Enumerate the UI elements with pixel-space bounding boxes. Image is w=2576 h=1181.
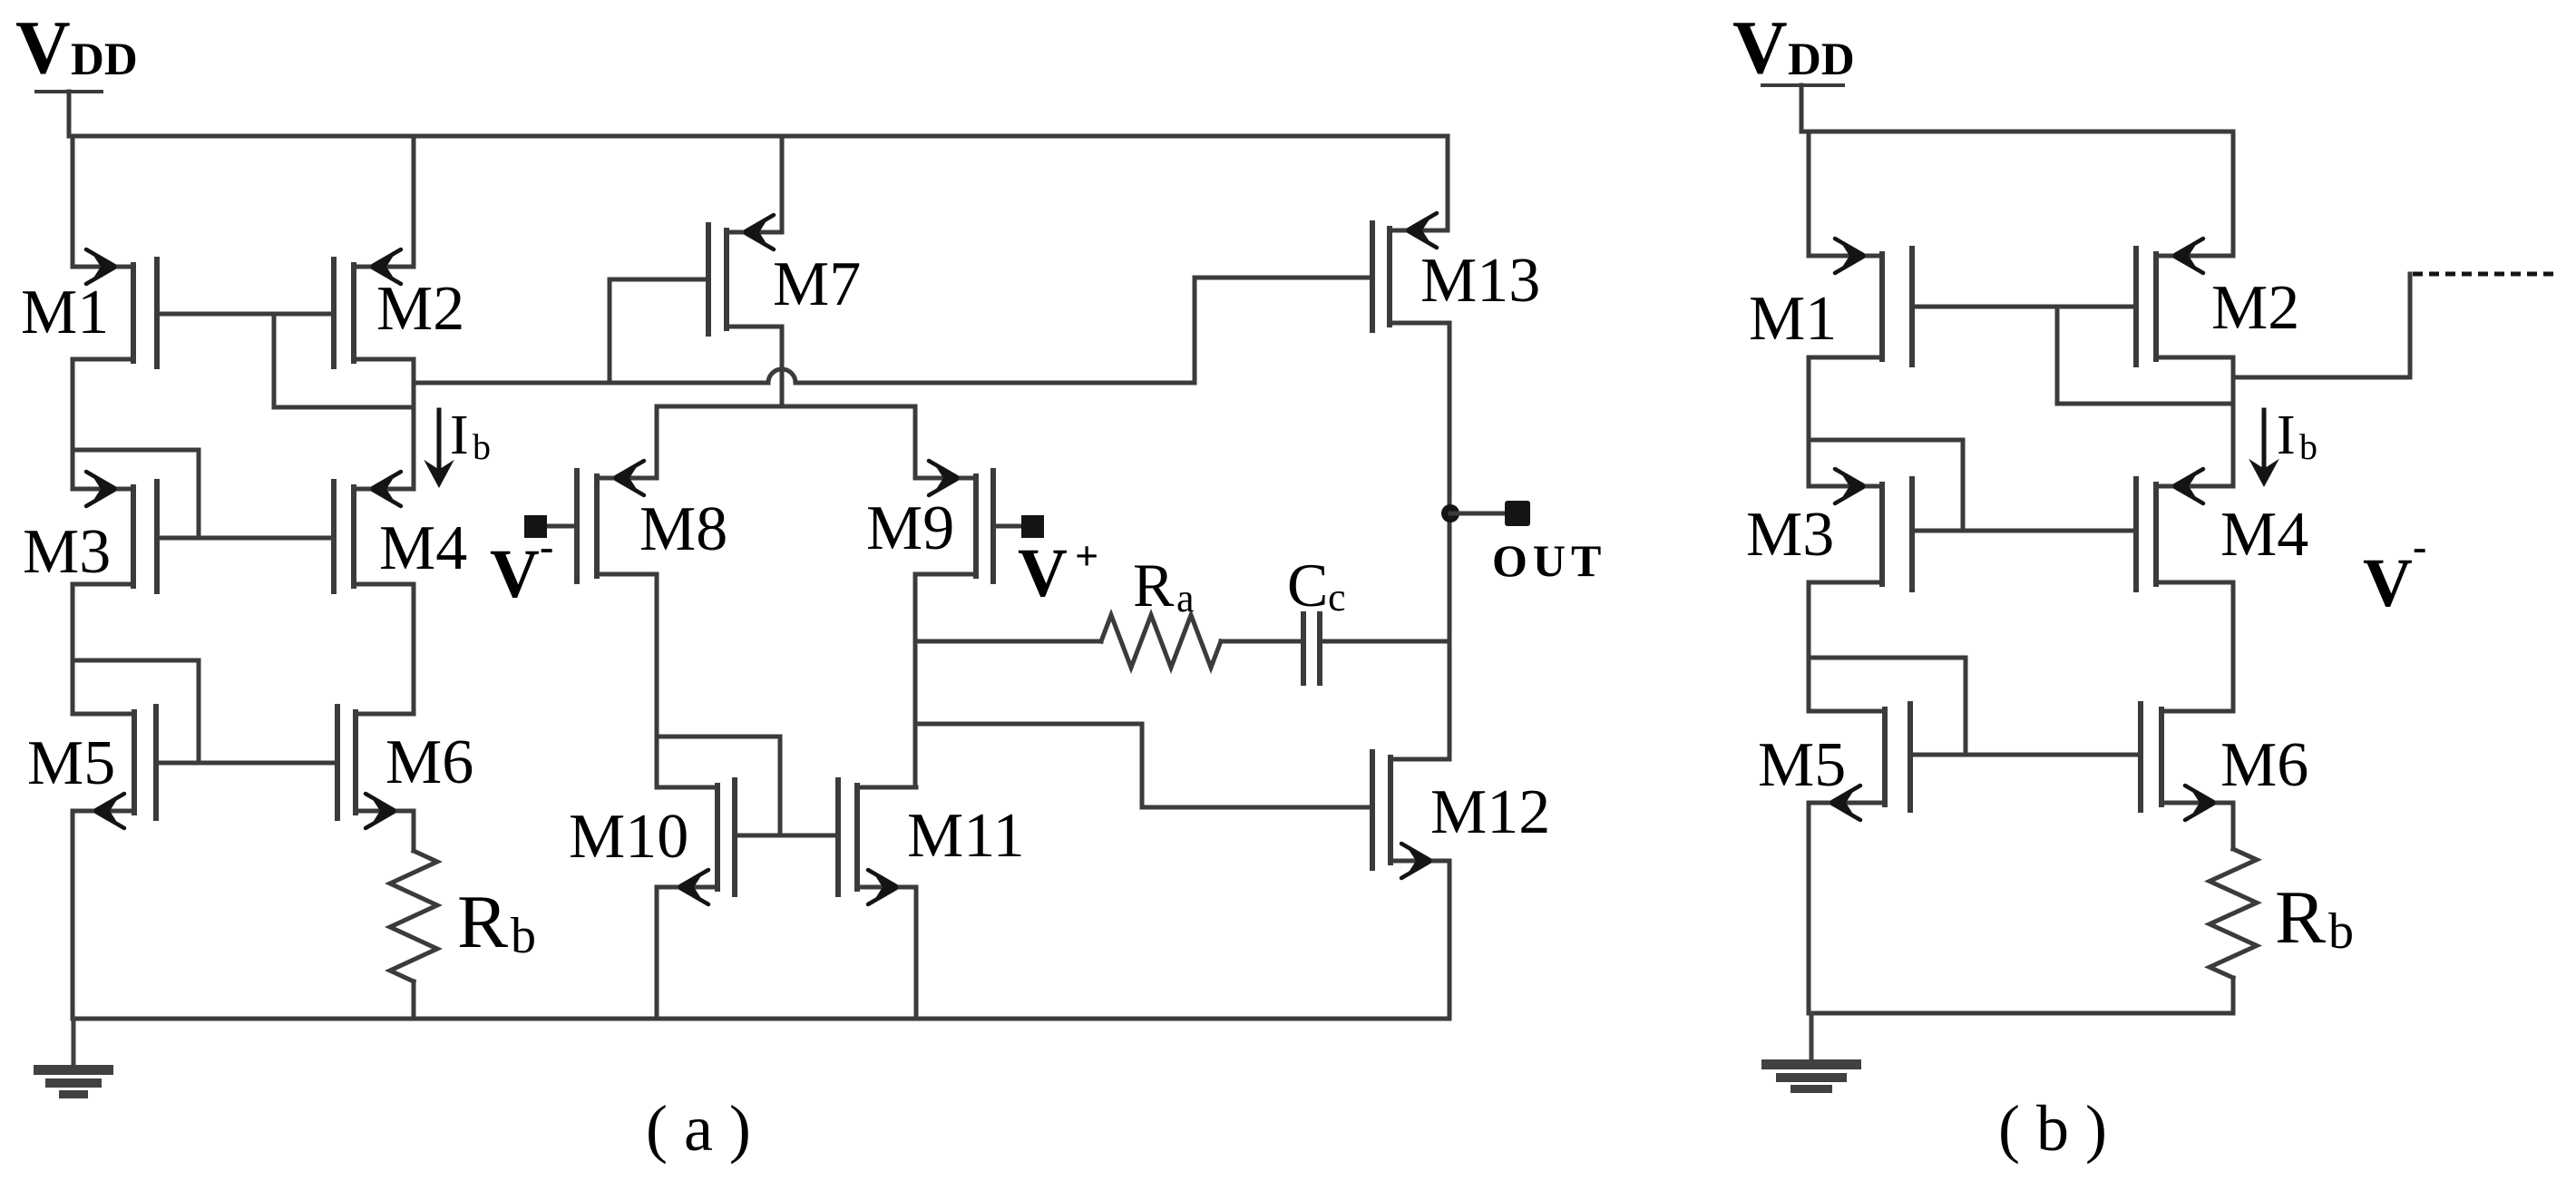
transistor M2 (b) — [2136, 239, 2299, 365]
current arrow Ib (a) — [424, 405, 491, 488]
wire M3-M4 gate net (b) — [1912, 529, 2136, 533]
transistor M5 — [27, 707, 156, 828]
wire M7 drain to tail net — [780, 327, 785, 406]
wire rail to M1 source (b) — [1807, 132, 1811, 256]
capacitor Cc — [1287, 551, 1346, 683]
svg-text:-: - — [540, 523, 553, 570]
svg-text:M5: M5 — [27, 728, 115, 798]
wire M1-M2 gate net — [157, 312, 334, 317]
transistor M13 — [1372, 213, 1540, 330]
svg-text:C: C — [1287, 551, 1328, 620]
output node OUT — [1441, 501, 1606, 586]
svg-text:M8: M8 — [639, 494, 727, 564]
svg-text:M4: M4 — [2220, 500, 2308, 570]
wire M1 drain to M3 source (b) — [1807, 357, 1811, 486]
transistor M8 — [577, 461, 727, 581]
wire M3 drain to M5 drain — [71, 584, 75, 714]
svg-text:M9: M9 — [866, 493, 954, 563]
transistor M7 — [708, 215, 861, 334]
wire Ra to Cc — [1221, 639, 1303, 644]
svg-text:M6: M6 — [385, 727, 473, 797]
wire diff-pair tail net — [657, 405, 915, 409]
svg-text:I: I — [2277, 405, 2296, 466]
current arrow Ib (b) — [2249, 405, 2317, 487]
svg-text:I: I — [450, 405, 469, 466]
transistor M6 (b) — [2141, 704, 2308, 820]
svg-text:M1: M1 — [21, 278, 109, 347]
svg-text:M3: M3 — [23, 517, 111, 587]
transistor M12 — [1372, 752, 1550, 878]
dashed wire (b) — [2413, 272, 2560, 277]
svg-text:b: b — [473, 426, 491, 467]
wire rail to M2 source — [412, 136, 416, 267]
wire ground rail (b) — [1809, 1011, 2233, 1016]
wire M3-M4 gate net — [157, 536, 334, 541]
resistor Ra — [1101, 551, 1221, 668]
wire rail to M7 source — [780, 136, 785, 232]
ground symbol (b) — [1761, 1013, 1861, 1093]
wire M3 gate tie jog (b) — [1809, 440, 1963, 531]
svg-text:DD: DD — [1788, 34, 1855, 85]
wire rail to M13 source — [1446, 136, 1450, 230]
wire M2 gate-drain tie — [274, 314, 412, 407]
svg-text:b: b — [2299, 426, 2317, 467]
wire M1-M2 gate net (b) — [1912, 305, 2136, 309]
svg-text:R: R — [457, 880, 508, 964]
svg-text:R: R — [1133, 551, 1175, 620]
wire M4 drain to M6 drain — [412, 584, 416, 714]
power symbol VDD (circuit a) — [15, 5, 138, 136]
transistor M4 — [334, 472, 467, 591]
transistor M2 — [334, 249, 464, 366]
resistor Rb (a) — [390, 811, 536, 1019]
power symbol VDD (circuit b) — [1732, 5, 1855, 132]
wire M2 drain to M4 source (b) — [2231, 357, 2236, 486]
wire M5 source to ground rail (b) — [1807, 803, 1811, 1013]
wire M13 drain to output column — [1448, 323, 1452, 759]
svg-text:M7: M7 — [773, 249, 861, 319]
wire M8 drain to M10 drain — [655, 574, 659, 787]
wire Cc to output net — [1320, 639, 1449, 644]
wire tail to M8 — [655, 406, 659, 478]
wire M10-M11 gate net — [735, 834, 838, 838]
svg-text:b: b — [511, 908, 536, 964]
wire M10 source to ground rail — [655, 887, 659, 1019]
transistor M3 (b) — [1746, 469, 1912, 590]
transistor M1 — [21, 249, 157, 366]
svg-text:OUT: OUT — [1492, 535, 1606, 586]
wire M3 gate tie jog — [73, 450, 199, 538]
wire M5 gate tie jog — [73, 660, 199, 763]
wire M2 gate-drain tie (b) — [2057, 307, 2231, 404]
input label V- (b) — [2363, 523, 2426, 621]
svg-text:c: c — [1328, 575, 1346, 620]
transistor M1 (b) — [1749, 239, 1912, 365]
wire M5 source to ground rail — [71, 811, 75, 1019]
subfigure label ( b ) — [1998, 1092, 2107, 1165]
svg-text:( b ): ( b ) — [1998, 1092, 2107, 1165]
svg-text:V: V — [15, 5, 71, 90]
svg-text:V: V — [1018, 535, 1068, 611]
resistor Rb (b) — [2210, 803, 2354, 1013]
svg-text:M5: M5 — [1758, 730, 1846, 800]
transistor M9 — [866, 461, 993, 581]
wire rail to M1 source — [71, 136, 75, 267]
wire M5-M6 gate net — [156, 761, 337, 766]
wire M1 drain to M3 source — [71, 359, 75, 489]
svg-text:V: V — [490, 536, 540, 612]
wire M10 gate tie jog — [657, 737, 780, 835]
svg-text:DD: DD — [71, 34, 138, 85]
transistor M10 — [569, 780, 735, 904]
svg-text:M13: M13 — [1420, 246, 1540, 316]
svg-text:M2: M2 — [2211, 273, 2299, 343]
wire M12 source to ground rail — [1448, 861, 1452, 1019]
ground symbol (a) — [34, 1019, 113, 1098]
svg-text:a: a — [1176, 576, 1195, 620]
svg-text:V: V — [2363, 545, 2413, 621]
wire M12 gate net — [915, 724, 1372, 807]
wire VDD top rail (a) — [69, 134, 1448, 139]
subfigure label ( a ) — [646, 1092, 751, 1165]
wire M2 drain to M4 source — [412, 359, 416, 489]
svg-text:M3: M3 — [1746, 500, 1834, 570]
wire VDD top rail (b) — [1801, 130, 2233, 134]
wire rail to M2 source (b) — [2231, 132, 2236, 256]
svg-text:V: V — [1732, 5, 1788, 90]
transistor M6 — [337, 707, 473, 828]
transistor M5 (b) — [1758, 704, 1910, 820]
svg-text:M2: M2 — [376, 274, 464, 344]
svg-text:-: - — [2413, 523, 2426, 570]
wire M3 drain to M5 drain (b) — [1807, 582, 1811, 711]
wire compensation tap — [915, 639, 1101, 644]
wire tail to M9 — [913, 406, 918, 478]
wire to dashed continuation (b) — [2233, 274, 2410, 377]
input node V- (a) — [490, 515, 577, 612]
svg-text:M6: M6 — [2220, 730, 2308, 800]
transistor M11 — [838, 780, 1025, 904]
svg-text:M10: M10 — [569, 802, 688, 872]
wire M5-M6 gate net (b) — [1910, 753, 2141, 757]
wire M4 drain to M6 drain (b) — [2231, 582, 2236, 711]
svg-text:M1: M1 — [1749, 284, 1837, 354]
transistor M3 — [23, 472, 157, 591]
wire M5 gate tie jog (b) — [1809, 658, 1966, 755]
svg-text:R: R — [2275, 875, 2326, 960]
wire bias net M2 drain to M7/M13 gates (with crossover hop) — [414, 278, 1372, 383]
transistor M4 (b) — [2136, 469, 2308, 590]
svg-text:b: b — [2328, 903, 2354, 960]
svg-text:M11: M11 — [907, 801, 1025, 871]
wire M7 gate tie — [610, 279, 708, 383]
wire ground rail (a) — [73, 1017, 1449, 1021]
svg-text:M4: M4 — [379, 513, 467, 583]
svg-text:+: + — [1075, 532, 1098, 579]
svg-text:M12: M12 — [1430, 777, 1550, 847]
wire M11 source to ground rail — [914, 887, 919, 1019]
svg-text:( a ): ( a ) — [646, 1092, 751, 1165]
wire M9 drain to M11 drain — [913, 574, 918, 787]
input node V+ (a) — [993, 515, 1098, 611]
